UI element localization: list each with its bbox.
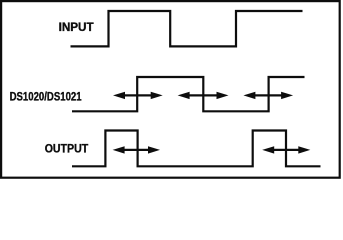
arrow delay marker mid-2 — [178, 92, 229, 99]
svg-text:INPUT: INPUT — [59, 22, 94, 34]
wire INPUT waveform — [71, 11, 303, 46]
svg-text:DS1020/DS1021: DS1020/DS1021 — [10, 92, 83, 104]
wire DS1020/DS1021 waveform — [72, 77, 305, 111]
wire OUTPUT waveform — [72, 131, 321, 167]
svg-text:OUTPUT: OUTPUT — [45, 143, 88, 155]
arrow delay marker out-1 — [113, 146, 160, 153]
border frame — [1, 1, 340, 178]
arrow delay marker mid-3 — [243, 92, 293, 99]
arrow delay marker mid-1 — [113, 92, 163, 99]
arrow delay marker out-2 — [262, 146, 310, 153]
